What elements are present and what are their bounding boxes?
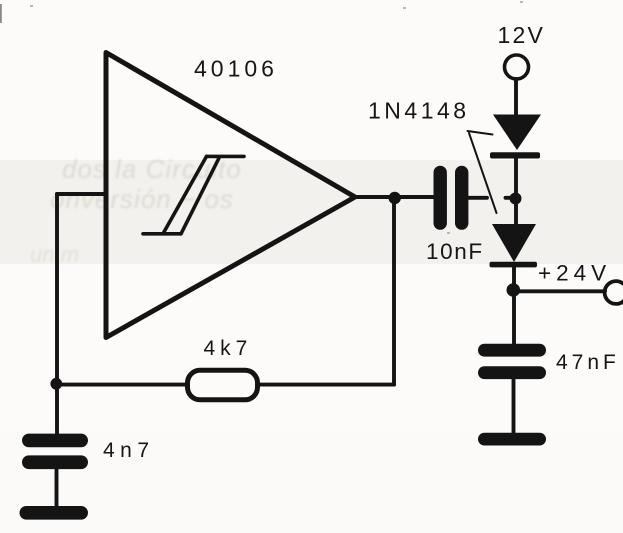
svg-text:4k7: 4k7: [204, 337, 253, 360]
svg-text:40106: 40106: [194, 56, 278, 82]
svg-text:un m: un m: [30, 242, 79, 267]
svg-text:4n7: 4n7: [103, 439, 155, 462]
svg-text:12V: 12V: [498, 22, 546, 48]
svg-text:10nF: 10nF: [426, 239, 484, 264]
svg-text:+24V: +24V: [538, 261, 611, 286]
svg-text:1N4148: 1N4148: [368, 98, 470, 124]
svg-text:47nF: 47nF: [556, 351, 620, 374]
svg-text:onversión − os: onversión − os: [50, 184, 234, 214]
